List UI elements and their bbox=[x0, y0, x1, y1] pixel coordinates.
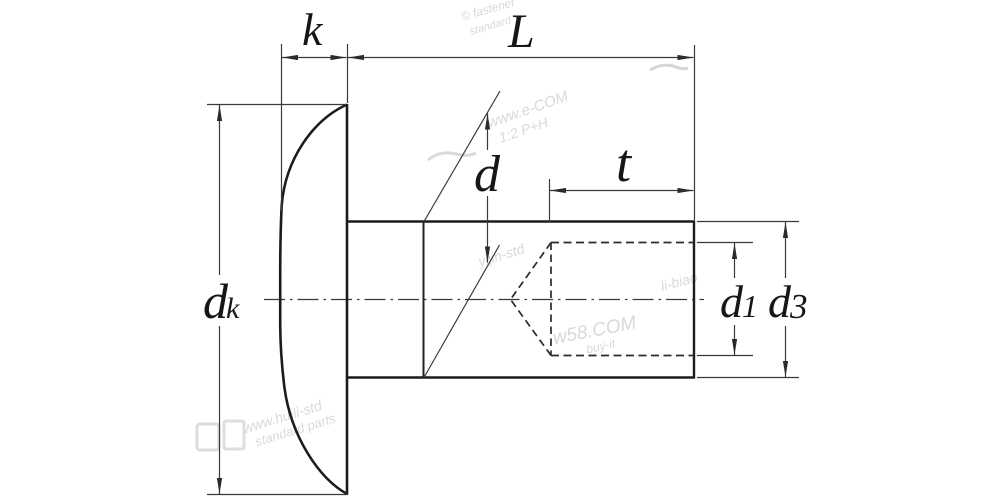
svg-text:k: k bbox=[302, 4, 324, 55]
watermark swoosh near d leader bbox=[428, 153, 476, 160]
d oblique extension lower bbox=[424, 245, 500, 378]
svg-text:yijin-std: yijin-std bbox=[475, 240, 527, 270]
t dimension line bbox=[550, 190, 694, 192]
head profile curve bbox=[280, 105, 347, 495]
d1 extension line top bbox=[697, 242, 753, 244]
drill cone upper edge bbox=[511, 243, 552, 300]
d1 extension line bottom bbox=[697, 355, 753, 357]
d3 dimension line lower part bbox=[785, 326, 787, 377]
d dimension line lower part bbox=[487, 196, 489, 263]
shank top edge bbox=[347, 220, 695, 223]
watermark top-left rows bbox=[459, 0, 522, 39]
d arrow up bbox=[485, 114, 490, 130]
dk extension line top bbox=[207, 104, 346, 106]
k dimension line bbox=[282, 57, 347, 59]
watermark right of shank bbox=[659, 269, 699, 294]
watermark big COM text bbox=[551, 312, 638, 349]
L dimension line bbox=[348, 57, 694, 59]
drill cone lower edge bbox=[511, 300, 552, 356]
dk arrow down bbox=[217, 478, 222, 494]
t extension line left bbox=[549, 179, 551, 222]
svg-text:d: d bbox=[720, 276, 744, 327]
d3 arrow up bbox=[783, 222, 788, 238]
svg-text:L: L bbox=[507, 5, 535, 58]
d1 dimension line lower part bbox=[734, 325, 736, 355]
dk arrow up bbox=[217, 105, 222, 121]
d oblique extension upper bbox=[424, 91, 500, 222]
dk extension line bottom bbox=[207, 494, 348, 496]
watermark swoosh right of L bbox=[650, 65, 688, 70]
hidden hole bottom edge bbox=[551, 355, 694, 357]
k arrow right bbox=[331, 55, 347, 60]
head right face bbox=[346, 104, 349, 495]
k extension line left bbox=[281, 44, 283, 210]
dk dimension line upper part bbox=[219, 105, 221, 275]
t arrow left bbox=[550, 188, 566, 193]
L extension line right bbox=[694, 45, 696, 220]
shank bottom edge bbox=[347, 376, 695, 379]
k arrow left bbox=[282, 55, 298, 60]
d1 arrow down bbox=[732, 339, 737, 355]
d1 dimension line upper part bbox=[734, 243, 736, 278]
k extension line right bbox=[347, 44, 349, 103]
watermark bottom-left blobs bbox=[241, 394, 338, 451]
d arrow down bbox=[485, 247, 490, 263]
t arrow right bbox=[678, 188, 694, 193]
shank right end face bbox=[693, 221, 695, 379]
svg-text:t: t bbox=[616, 133, 633, 193]
svg-text:3: 3 bbox=[789, 287, 808, 326]
svg-text:d: d bbox=[768, 276, 792, 327]
L arrow left bbox=[348, 55, 364, 60]
watermark mid shank text bbox=[475, 240, 527, 270]
svg-text:1: 1 bbox=[742, 288, 758, 324]
d3 arrow down bbox=[783, 361, 788, 377]
d1 arrow up bbox=[732, 243, 737, 259]
watermark mid upper text bbox=[485, 88, 576, 148]
dk dimension line lower part bbox=[219, 326, 221, 494]
hole mouth vertical bbox=[550, 243, 552, 356]
d dimension line upper part bbox=[487, 114, 489, 151]
shank section line bbox=[423, 222, 425, 378]
svg-text:k: k bbox=[226, 292, 240, 325]
d3 dimension line upper part bbox=[785, 222, 787, 278]
svg-text:d: d bbox=[474, 146, 501, 203]
centerline axis bbox=[264, 299, 704, 301]
d3 extension line bottom bbox=[697, 377, 799, 379]
hidden hole top edge bbox=[551, 242, 694, 244]
d3 extension line top bbox=[697, 221, 799, 223]
L arrow right bbox=[678, 55, 694, 60]
